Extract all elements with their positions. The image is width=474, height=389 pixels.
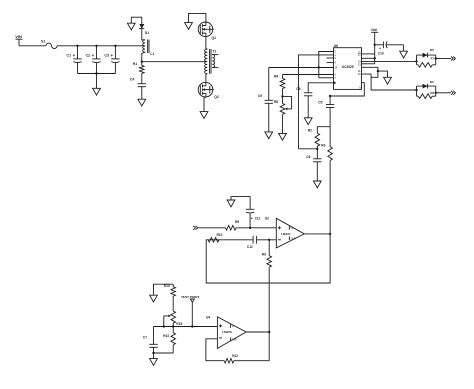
wire pin12 stub — [362, 63, 375, 65]
node Vdd supply — [371, 28, 379, 64]
op-amp U4 LM358 — [206, 316, 246, 349]
capacitor C3 — [104, 46, 119, 74]
wire pin2 to vertical — [319, 52, 334, 78]
resistor R10 — [208, 233, 222, 242]
svg-text:C9: C9 — [258, 94, 262, 98]
wire pin7 jog — [319, 77, 334, 79]
svg-text:R6: R6 — [274, 100, 278, 104]
wire U2 minus input — [257, 239, 276, 241]
wire R2 jog — [317, 127, 330, 134]
svg-text:C12: C12 — [247, 245, 253, 249]
svg-text:C10: C10 — [378, 52, 384, 56]
wire pin1 down long — [299, 55, 334, 149]
svg-text:D2: D2 — [430, 80, 434, 84]
wire pin3 stub — [327, 57, 334, 59]
diode D2 resistor R8 network — [415, 80, 455, 98]
wire Q1 to T1 — [206, 37, 207, 50]
svg-text:+: + — [92, 53, 95, 58]
wire plus input rail — [154, 326, 218, 328]
svg-text:C3: C3 — [104, 53, 109, 57]
ground Q1 — [185, 13, 206, 29]
node junction R2 C6 — [316, 148, 318, 150]
wire to ground right of U6 — [378, 71, 388, 77]
node junction bus — [95, 72, 97, 74]
svg-text:+: + — [379, 47, 381, 51]
resistor R14 — [164, 284, 176, 311]
resistor R5 — [226, 220, 240, 230]
capacitor C6 — [306, 149, 321, 181]
svg-text:Q1: Q1 — [212, 36, 217, 40]
resistor R3 — [321, 127, 332, 161]
capacitor C4 — [130, 77, 146, 99]
node junction test point — [191, 325, 193, 327]
svg-text:R10: R10 — [217, 233, 223, 237]
ground right of U6 — [384, 77, 392, 84]
potentiometer R6 — [274, 96, 292, 133]
svg-text:R5: R5 — [235, 220, 239, 224]
svg-text:R14: R14 — [164, 284, 170, 288]
svg-text:C1: C1 — [67, 53, 72, 57]
capacitor C1 — [67, 46, 82, 74]
svg-text:LM358: LM358 — [222, 330, 232, 334]
fuse S1 — [41, 40, 57, 49]
potentiometer R15 — [164, 311, 183, 326]
wire D1 to L1 — [142, 29, 145, 40]
ground C9 — [265, 132, 273, 139]
wire port to R5 — [197, 227, 225, 229]
svg-text:D1: D1 — [145, 31, 149, 35]
svg-text:LM324: LM324 — [281, 232, 291, 236]
wire Q2 to ground — [204, 97, 206, 112]
op-amp U6 UC3525 body — [334, 44, 362, 89]
node junction C3 — [114, 45, 116, 47]
capacitor C9 — [258, 68, 273, 132]
node junction Vref rail — [318, 66, 320, 68]
ground D1 — [127, 17, 141, 30]
svg-text:TEST POINT: TEST POINT — [181, 295, 199, 299]
wire R12 to output — [234, 332, 269, 361]
node junction shutdown gnd — [377, 70, 379, 72]
node junction R9 — [268, 239, 270, 241]
capacitor C5 — [318, 95, 334, 127]
node junction L1 R1 — [141, 61, 143, 63]
node junction R15 R13 — [172, 325, 174, 327]
wire U2 output — [304, 233, 330, 235]
svg-text:C6: C6 — [306, 155, 310, 159]
svg-text:R15: R15 — [176, 322, 182, 326]
wire R3 to U2 output rail — [329, 161, 331, 234]
svg-text:GND: GND — [232, 339, 237, 341]
ground C6 — [313, 181, 321, 188]
node junction wiper — [163, 325, 165, 327]
wire U4 output — [246, 331, 269, 333]
ground C8 — [304, 118, 312, 125]
wire pin6 to R4 — [283, 74, 334, 76]
svg-text:T1: T1 — [212, 50, 216, 54]
node junction U4 output — [268, 331, 270, 333]
svg-text:S1: S1 — [41, 40, 45, 44]
node junction C10 tap — [374, 44, 376, 46]
svg-text:R12: R12 — [232, 354, 238, 358]
wire pin8 to C8 — [308, 82, 335, 93]
resistor R9 — [262, 240, 272, 267]
diode D5 resistor R7 network — [415, 48, 455, 67]
transistor Q1 — [198, 22, 216, 40]
ground R14 — [150, 284, 174, 302]
svg-text:R3: R3 — [321, 143, 325, 147]
svg-text:U4: U4 — [206, 316, 210, 320]
svg-text:C5: C5 — [318, 100, 322, 104]
svg-text:U2: U2 — [265, 217, 269, 221]
resistor R13 — [163, 327, 175, 354]
wire R5 to U2 plus — [236, 227, 276, 229]
node junction C11 — [249, 227, 251, 229]
capacitor C2 — [86, 46, 101, 74]
capacitor C12 — [247, 236, 257, 249]
ground C7 — [150, 353, 158, 365]
svg-text:R4: R4 — [274, 74, 278, 78]
svg-text:L1: L1 — [150, 52, 154, 56]
wire C7 R13 bottom — [154, 352, 174, 354]
wire VIN to S1 — [19, 45, 46, 47]
wire capacitor bus — [78, 73, 116, 75]
svg-text:C4: C4 — [130, 77, 134, 81]
wire pin11 to D2 network — [362, 74, 417, 90]
diode D1 — [139, 24, 149, 35]
node junction C2 — [95, 45, 97, 47]
svg-text:R2: R2 — [308, 129, 312, 133]
svg-text:GND: GND — [291, 238, 296, 240]
svg-text:Vdd: Vdd — [371, 28, 377, 32]
node TEST POINT — [181, 295, 199, 327]
svg-text:C11: C11 — [255, 217, 261, 221]
transistor Q2 — [198, 82, 219, 99]
wire pin15 stub — [362, 53, 375, 55]
capacitor C8 — [296, 87, 312, 118]
svg-text:D5: D5 — [430, 48, 434, 52]
svg-text:UC3525: UC3525 — [342, 65, 354, 69]
wire pin14 to D5 network — [362, 60, 417, 62]
svg-text:C8: C8 — [296, 87, 300, 91]
wire U2 feedback loop — [206, 234, 330, 283]
svg-text:U6: U6 — [334, 44, 338, 48]
wire R9 to U4 output — [268, 267, 270, 332]
wire C12 to R10 — [208, 239, 253, 241]
wire pin9 to C5 — [330, 83, 364, 96]
node junction R4 R6 — [281, 95, 283, 97]
svg-text:+: + — [73, 53, 76, 58]
ground C10 — [400, 45, 408, 58]
node VIN port — [15, 34, 22, 46]
capacitor C11 — [231, 197, 269, 228]
node junction U2 output — [329, 233, 331, 235]
ground R6 — [279, 133, 287, 140]
resistor R12 — [224, 354, 238, 363]
transformer T1 — [205, 49, 219, 82]
wire pin sync zig — [362, 67, 378, 77]
capacitor C7 — [143, 327, 158, 354]
svg-text:R9: R9 — [262, 252, 266, 256]
inductor L1 — [142, 40, 155, 62]
resistor R1 — [133, 62, 144, 84]
svg-text:Q2: Q2 — [214, 95, 219, 99]
node junction C1 — [76, 45, 78, 47]
wire L1 to T1 center tap — [142, 61, 206, 63]
resistor R4 — [274, 74, 285, 96]
ground input filter — [93, 74, 101, 96]
wire pin13 Vc stub — [362, 57, 375, 59]
resistor R2 — [308, 129, 320, 149]
svg-text:R8: R8 — [431, 91, 435, 95]
ground C4 — [138, 99, 146, 106]
svg-text:+: + — [111, 53, 114, 58]
svg-text:R1: R1 — [133, 62, 137, 66]
wire Vref rail to C9 — [269, 67, 334, 69]
capacitor C10 — [375, 41, 404, 55]
svg-text:R13: R13 — [163, 334, 169, 338]
node junction Vdd pin — [374, 57, 376, 59]
svg-text:VIN: VIN — [15, 34, 22, 39]
svg-text:C7: C7 — [143, 335, 147, 339]
node input port — [193, 226, 198, 230]
ground Q2 — [200, 112, 208, 119]
svg-text:C2: C2 — [86, 53, 91, 57]
wire S1 to L1 — [57, 45, 143, 47]
pin numbers U6 — [334, 50, 361, 90]
svg-text:+: + — [251, 217, 253, 221]
op-amp U2 LM324 — [276, 218, 304, 248]
wire U4 minus feedback — [206, 339, 224, 361]
svg-text:R7: R7 — [431, 57, 435, 61]
node junction C7 ground — [152, 352, 154, 354]
ground C11 — [227, 200, 235, 207]
wire timing node — [299, 148, 318, 150]
wire pin4 stub — [327, 62, 334, 64]
